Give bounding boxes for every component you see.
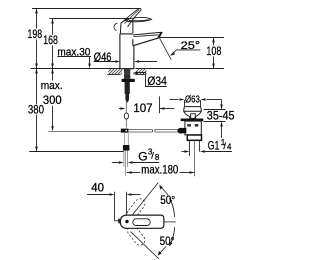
centerline below shank [125,101,127,112]
svg-text:/: / [223,141,226,152]
lever open position [122,8,141,27]
lever swing arc [114,23,118,31]
knob nub left [118,219,121,224]
svg-text:198: 198 [28,27,43,41]
pull rod dot [125,220,128,223]
extension line closed lever top (168 ref) [50,18,130,20]
waste body [185,121,201,135]
dimension line 198/380 vertical [36,9,38,29]
pop-up rod left thin section [49,131,121,133]
svg-text:108: 108 [206,44,221,58]
dashed lever position lower [125,224,146,247]
hose nut [123,145,129,151]
waste ball housing [183,128,186,133]
svg-text:25°: 25° [181,40,201,52]
380 bottom reference line [29,151,124,153]
svg-text:107: 107 [133,101,153,115]
centerline extension right [164,221,176,223]
extension line top of lever (198 ref) [32,8,140,10]
max.30 leader arrowhead [88,64,91,69]
max.180 dimension [127,172,195,174]
svg-text:Ø46: Ø46 [94,50,112,64]
svg-text:40: 40 [91,181,104,195]
waste tailpipe [188,140,190,156]
countertop bottom line [107,74,120,76]
svg-text:380: 380 [28,103,44,117]
arrowheads 168 dim [51,19,54,24]
svg-text:max.180: max.180 [141,164,178,176]
waste top cap [184,107,202,119]
25 degree leader [171,50,200,55]
svg-text:300: 300 [43,93,62,107]
faucet base bottom edge [120,68,134,70]
countertop top line [31,68,121,70]
waste: Ø63 dimension [170,100,222,107]
threaded shank below [125,82,130,94]
50 deg arc lower [170,227,175,245]
svg-text:50°: 50° [160,234,175,248]
G1 1/4 left counter-arrow [182,151,186,153]
svg-text:8: 8 [155,153,160,162]
50deg swing line upper [131,183,159,218]
svg-text:G: G [138,149,147,163]
lever hub [120,21,132,34]
108 dimension line [213,38,215,69]
dimension line 168/max300 vertical [52,19,54,35]
svg-text:4: 4 [227,143,232,152]
pop-up rod right section [128,130,177,133]
svg-text:50°: 50° [160,193,175,207]
50deg upper label leader [161,187,168,195]
50 deg arc upper [170,198,175,216]
flexible hose [124,133,126,145]
rod joint at faucet [121,129,129,133]
small coupler ellipse [124,113,128,119]
108 extension line [159,37,224,39]
waste flange band [181,119,204,122]
25 degree line from aerator [160,38,172,60]
G 3/8 leader and arrows [112,162,159,164]
40 dimension [87,192,140,221]
rod ball at waste [177,128,184,134]
faucet body outline [120,34,134,69]
backnut [122,79,135,82]
107 dimension [119,96,174,113]
spout [133,32,162,45]
body stadium top view [120,215,163,228]
G1 1/4 leader [207,151,232,153]
arrowheads 198 dim [35,9,38,14]
50deg swing line lower [131,232,159,259]
svg-text:168: 168 [43,33,58,47]
svg-text:Ø63: Ø63 [185,95,200,106]
lever closed position [125,17,152,21]
hatching countertop left [96,69,126,75]
max.30 underline and leader [57,57,91,65]
shank through countertop [124,69,130,75]
svg-text:max.: max. [41,80,63,92]
svg-text:35-45: 35-45 [207,108,235,122]
svg-text:G1: G1 [208,139,220,153]
svg-text:Ø34: Ø34 [147,74,167,88]
arrowheads max300 dim [51,69,54,74]
arrowheads 380 dim [35,69,38,74]
dashed lever position upper [125,197,146,220]
spout aerator face [157,32,162,38]
35-45 dimension [204,100,226,139]
svg-text:/: / [151,151,154,162]
50deg lower label leader [160,247,166,253]
hatching countertop right [133,69,157,75]
waste nut [187,135,201,140]
lever slot [133,219,150,226]
hose thread [123,151,125,167]
